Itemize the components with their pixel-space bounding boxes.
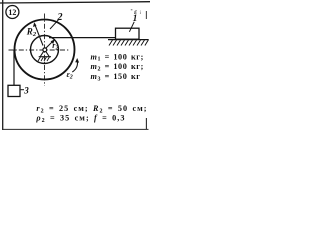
- pulley hub pin circle: [43, 48, 47, 52]
- problem number badge circle (12): [6, 6, 19, 19]
- frame right border top fragment: [145, 11, 147, 19]
- frame left border: [2, 0, 4, 130]
- thread from pulley down to block 3: [13, 50, 15, 85]
- block 1 rectangle: [116, 28, 140, 39]
- pulley horizontal centerline: [9, 49, 71, 51]
- R2 radius arrow: [35, 24, 43, 46]
- pulley 2 inner circle r2: [31, 36, 59, 64]
- thread from pulley to block 1: [49, 37, 116, 39]
- svg-text:2: 2: [57, 12, 63, 23]
- label 3 dash: [21, 89, 24, 91]
- r2 radius arrow: [46, 41, 54, 49]
- svg-text:i: i: [140, 11, 142, 16]
- svg-text:m3 = 150 кг: m3 = 150 кг: [91, 72, 141, 82]
- svg-text:12: 12: [8, 8, 16, 17]
- pivot support base line: [39, 56, 51, 58]
- svg-text:ρ2 = 35 см; f = 0,3: ρ2 = 35 см; f = 0,3: [35, 113, 125, 123]
- ground line under block 1: [108, 39, 149, 41]
- svg-text:3: 3: [23, 85, 29, 95]
- block 3 rectangle: [8, 85, 20, 96]
- label 1 leader line: [129, 22, 134, 32]
- svg-text:ε2: ε2: [67, 70, 73, 81]
- pulley vertical centerline: [44, 14, 46, 87]
- ground hatching: [109, 40, 148, 46]
- pulley 2 outer circle R2: [15, 20, 75, 80]
- frame right border bottom fragment: [145, 118, 147, 129]
- label 2 leader line: [50, 20, 58, 29]
- frame top border: [0, 2, 150, 3]
- pivot base hatching: [38, 57, 50, 61]
- svg-text:m1 = 100 кг;: m1 = 100 кг;: [91, 52, 144, 62]
- svg-text:R2: R2: [26, 27, 37, 39]
- frame bottom border: [2, 128, 149, 130]
- pivot support legs: [40, 51, 49, 56]
- angular acceleration arrow eps2: [72, 61, 77, 73]
